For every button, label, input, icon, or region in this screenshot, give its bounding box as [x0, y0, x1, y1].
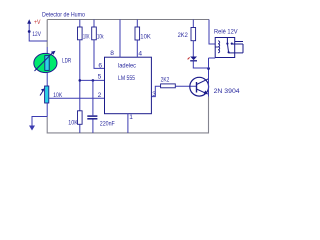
svg-text:3: 3: [152, 91, 156, 98]
svg-text:10K: 10K: [83, 33, 90, 40]
svg-text:6: 6: [98, 62, 102, 69]
svg-text:2K2: 2K2: [178, 32, 188, 39]
svg-text:12V: 12V: [32, 31, 41, 38]
svg-text:8: 8: [110, 50, 114, 57]
svg-text:10K: 10K: [140, 34, 151, 41]
svg-text:Detector de Humo: Detector de Humo: [42, 12, 85, 19]
svg-text:2K2: 2K2: [161, 77, 170, 84]
svg-text:220nF: 220nF: [100, 120, 115, 127]
svg-text:LDR: LDR: [62, 58, 71, 65]
svg-text:1: 1: [129, 114, 133, 121]
svg-text:Relé 12V: Relé 12V: [214, 29, 238, 36]
svg-text:10K: 10K: [68, 120, 78, 127]
svg-text:4: 4: [138, 50, 142, 57]
svg-text:2N 3904: 2N 3904: [214, 88, 240, 95]
svg-text:10k: 10k: [97, 33, 104, 40]
svg-text:5: 5: [98, 73, 102, 80]
svg-text:2: 2: [98, 92, 102, 99]
svg-text:LM 555: LM 555: [118, 75, 135, 82]
svg-text:10K: 10K: [53, 92, 62, 99]
svg-text:+V: +V: [34, 19, 41, 26]
svg-text:ladelec: ladelec: [118, 62, 137, 69]
